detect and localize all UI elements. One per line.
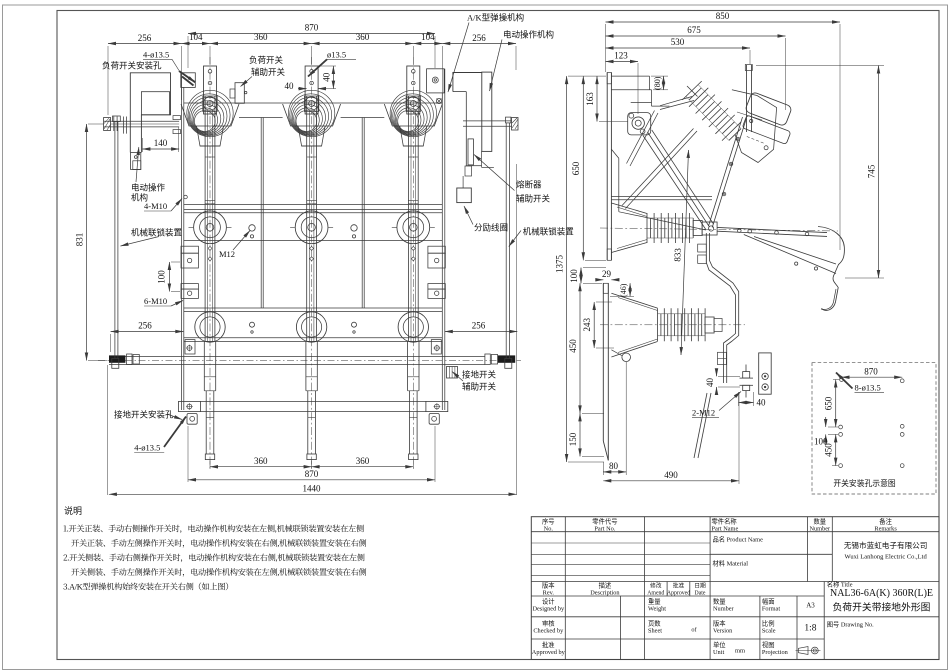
svg-text:360: 360 xyxy=(356,456,370,466)
side frame bottom b xyxy=(611,199,712,201)
dim 40 arrow right xyxy=(318,88,326,90)
P3 flange1 mid xyxy=(403,217,424,238)
leader 2-M12 xyxy=(719,392,741,411)
svg-text:零件名称: 零件名称 xyxy=(712,516,738,525)
side upper bushing fins xyxy=(647,213,693,243)
manual shaft L collar a xyxy=(113,116,115,131)
side lower bushing centerline xyxy=(600,324,745,326)
front bottom rail bottom xyxy=(200,411,426,413)
svg-text:450: 450 xyxy=(568,339,578,353)
side contact bolt dot y376 xyxy=(764,376,766,378)
bracket column R xyxy=(426,246,448,424)
fuse rod adapter xyxy=(465,166,472,176)
P1 lower shaft div xyxy=(204,376,215,378)
manual shaft L bottom xyxy=(104,126,180,128)
front frame top rail xyxy=(184,102,443,104)
P1 flange1 outer xyxy=(194,211,227,244)
P3 shaft inner l xyxy=(410,110,412,341)
svg-text:Version: Version xyxy=(713,628,733,635)
bracket L rowC xyxy=(185,340,195,354)
P1 flange1 tick l xyxy=(189,226,194,228)
dim chain ext x210 xyxy=(209,46,211,64)
mount plate P3 hole inner xyxy=(434,79,436,81)
svg-text:80: 80 xyxy=(609,461,619,471)
leader 电动操作机构 top xyxy=(490,40,503,92)
P2 bearing outer xyxy=(305,97,318,110)
svg-text:负荷开关带接地外形图: 负荷开关带接地外形图 xyxy=(833,601,931,614)
P1 sub skirt xyxy=(197,126,224,146)
AK housing left edge xyxy=(465,92,467,166)
P1 sub skirt base xyxy=(200,145,220,147)
svg-text:无锡市蓝虹电子有限公司: 无锡市蓝虹电子有限公司 xyxy=(844,540,928,550)
foot plate L hole xyxy=(187,404,192,409)
side lower bushing hub xyxy=(714,319,722,332)
svg-text:A3: A3 xyxy=(806,602,815,610)
P3 coil turn 2 xyxy=(393,97,431,135)
dim 40h ext a xyxy=(738,392,740,406)
svg-text:接地开关安装孔: 接地开关安装孔 xyxy=(114,409,174,419)
dim 40 side horiz xyxy=(739,402,754,404)
motor mech bracket xyxy=(131,152,141,169)
svg-text:重量: 重量 xyxy=(648,598,661,606)
interlock bar right a xyxy=(505,123,507,359)
side plate upper L xyxy=(606,73,608,261)
svg-text:日期: 日期 xyxy=(694,583,706,590)
bracket column L xyxy=(179,246,201,424)
P1 shaft inner r xyxy=(211,110,213,341)
P2 coil skirt xyxy=(283,104,341,126)
P3 coil turn 6 xyxy=(398,111,419,132)
label 6-M10 underline xyxy=(144,305,171,307)
svg-text:零件代号: 零件代号 xyxy=(592,516,617,525)
svg-text:Part Name: Part Name xyxy=(712,525,739,532)
tb row description bottom xyxy=(531,595,824,597)
P3 flange1 outer xyxy=(397,211,430,244)
dim 140 ext l xyxy=(141,138,143,152)
tb col 620 xyxy=(620,596,622,660)
dim 831 line xyxy=(86,124,88,361)
P3 lower shaft r xyxy=(418,341,420,390)
dim 123 line xyxy=(606,61,639,63)
side lower pivot xyxy=(622,353,631,362)
dim 650 ext xyxy=(585,259,606,261)
dim 1375 ext top xyxy=(568,75,606,77)
front frame gap line 1-2 xyxy=(239,117,283,119)
bracket L rowC crosshair xyxy=(186,345,193,352)
svg-text:开关安装孔示意图: 开关安装孔示意图 xyxy=(833,478,896,488)
interlock bar left cap xyxy=(113,116,121,122)
side frame left profile xyxy=(618,158,620,212)
svg-text:831: 831 xyxy=(75,233,85,247)
side frame top b xyxy=(611,89,651,91)
AK housing step h xyxy=(453,91,466,93)
leader 4-ø13.5 bottom thick xyxy=(164,417,186,448)
svg-text:Number: Number xyxy=(713,606,735,613)
P3 shaft tick y203.8 xyxy=(408,203,418,205)
leader 4-M10 xyxy=(171,199,182,212)
dim 100 line xyxy=(168,262,170,292)
side switch arm top xyxy=(717,227,827,232)
AK channel bottom ext xyxy=(480,151,482,167)
P3 coil turn 1 xyxy=(391,94,433,136)
P2 coil turn 1 xyxy=(290,94,332,136)
dim holes ext c xyxy=(832,465,838,467)
P3 lower shaft l xyxy=(407,341,409,390)
svg-text:Remarks: Remarks xyxy=(874,525,897,532)
side small bolt line xyxy=(718,358,727,360)
dim 256 botR line xyxy=(445,331,518,333)
foot plate L xyxy=(179,401,201,411)
P2 coil turn 0 xyxy=(288,90,334,136)
dim holes ext a xyxy=(828,426,838,428)
tie bar at x363 left xyxy=(361,118,363,309)
P2 coil turn 3 xyxy=(292,101,325,134)
interlock bar right cap xyxy=(506,117,511,123)
side upper bushing centerline xyxy=(600,228,838,231)
dim side ext 638 xyxy=(637,63,639,114)
tb col weight r xyxy=(759,596,761,660)
dim 1375 line xyxy=(566,76,568,462)
svg-text:批准: 批准 xyxy=(673,582,685,590)
svg-text:100: 100 xyxy=(814,436,828,446)
hole diagram dashed box xyxy=(812,363,936,494)
svg-text:256: 256 xyxy=(472,33,486,43)
P2 coil turn 6 xyxy=(296,111,317,132)
bracket R rowB top xyxy=(428,284,445,290)
leader 分励线圈 xyxy=(464,206,473,225)
mount hole at 840.6,427 xyxy=(839,425,843,429)
dim 40 arrow left xyxy=(298,88,307,90)
dim bot ext x311.6 xyxy=(311,461,313,470)
side bearing outer xyxy=(632,117,644,129)
bracket R rowB hole xyxy=(435,291,439,295)
svg-text:40: 40 xyxy=(285,81,295,91)
ground shaft black end R xyxy=(498,355,516,362)
dim 650 line xyxy=(582,76,584,260)
side top housing inner xyxy=(737,112,762,120)
leader M12 xyxy=(233,231,250,251)
bracket L rowB top xyxy=(181,284,198,290)
load switch aux bracket small xyxy=(230,89,235,98)
svg-text:ø13.5: ø13.5 xyxy=(327,49,346,59)
side contact bolt y387 xyxy=(762,384,768,390)
side contact bolt dot y387 xyxy=(764,386,766,388)
P2 lower shaft div xyxy=(306,376,317,378)
svg-text:描述: 描述 xyxy=(599,581,612,590)
P2 flange2 outer xyxy=(296,312,326,342)
bracket R rowA top xyxy=(428,246,445,253)
ground shaft black end L xyxy=(109,355,125,362)
dim chain ext x516 xyxy=(515,46,517,70)
side switch arm bot xyxy=(717,231,827,236)
manual shaft L wing bot xyxy=(173,130,181,134)
svg-text:修改: 修改 xyxy=(650,582,662,590)
ground shaft collar Lb xyxy=(133,355,139,365)
dim 40 vert ext a xyxy=(318,65,336,67)
side frame top a xyxy=(611,75,649,77)
mount plate right of P3 xyxy=(427,69,445,93)
svg-text:8-ø13.5: 8-ø13.5 xyxy=(855,383,881,393)
P2 flange1 hub xyxy=(308,224,316,232)
P1 flange1 hub xyxy=(206,224,214,232)
svg-text:123: 123 xyxy=(614,51,628,61)
M12 bolt row1 at x354 xyxy=(351,225,357,231)
manual shaft R top xyxy=(463,120,512,122)
side contact bolt y376 xyxy=(762,373,768,379)
dim 850 line xyxy=(606,21,841,23)
bracket L rowA top xyxy=(181,246,198,253)
svg-text:NAL36-6A(K) 360R(L)E: NAL36-6A(K) 360R(L)E xyxy=(830,588,933,599)
dim (80) line xyxy=(663,76,665,90)
motor mech bracket foot xyxy=(133,161,141,170)
P2 coil turn 4 xyxy=(294,104,323,133)
svg-text:品名 Product Name: 品名 Product Name xyxy=(713,535,764,544)
dim side ext 750 xyxy=(749,50,751,64)
P3 centerline xyxy=(412,57,414,468)
dim 29 arrow r xyxy=(611,279,618,281)
side tilted insulator fins xyxy=(682,81,741,141)
P2 top bracket xyxy=(305,66,318,114)
leader 4-ø13.5 tail xyxy=(172,59,179,70)
P1 flange1 mid xyxy=(200,217,221,238)
mount hole at 840.6,434.4 xyxy=(839,433,843,437)
svg-text:(80): (80) xyxy=(653,76,662,90)
svg-text:140: 140 xyxy=(154,138,168,148)
svg-text:360: 360 xyxy=(254,456,268,466)
tb col amend r xyxy=(666,582,668,597)
front frame right edge inner xyxy=(441,93,443,410)
svg-text:电动操作: 电动操作 xyxy=(131,183,166,193)
tb col no xyxy=(564,517,566,660)
side tilted insulator bell a xyxy=(660,97,692,106)
P2 flange1 tick l xyxy=(290,226,295,228)
side M12 bolt upper xyxy=(743,372,750,379)
side upper hub pin xyxy=(709,226,714,231)
svg-text:接地开关: 接地开关 xyxy=(462,370,497,380)
motor mech bracket hole xyxy=(134,156,137,159)
side M12 washer b xyxy=(740,384,754,386)
tb parts row line 2 xyxy=(531,564,710,566)
svg-text:设计: 设计 xyxy=(542,597,555,606)
P3 coil turn 5 xyxy=(397,108,421,132)
P1 bolt diamond a xyxy=(208,246,212,250)
AK housing bottom xyxy=(466,165,482,167)
svg-text:电动操作机构: 电动操作机构 xyxy=(503,30,554,40)
dim 833 line xyxy=(681,150,689,355)
side lower bushing bell in b xyxy=(618,339,658,353)
pole P2 assembly xyxy=(283,57,341,468)
P3 bracket hole a xyxy=(412,70,416,74)
side plate upper R xyxy=(610,73,612,261)
side plate lower slant xyxy=(603,441,608,460)
svg-text:530: 530 xyxy=(671,37,685,47)
P2 rod r xyxy=(314,391,316,454)
P2 bolt diamond b xyxy=(310,257,314,261)
side top housing bolt b xyxy=(750,119,753,122)
side raised arm b xyxy=(751,65,753,132)
foot plate L crosshair xyxy=(186,403,193,410)
svg-text:No.: No. xyxy=(544,525,554,532)
interlock bar left foot xyxy=(112,359,119,369)
dim 360 bot a xyxy=(210,466,312,468)
manual shaft L top xyxy=(104,120,180,122)
svg-text:40: 40 xyxy=(705,378,715,388)
tb projection symbol circle xyxy=(811,647,818,654)
side M12 stem down xyxy=(745,391,747,398)
side top housing bolt a xyxy=(764,146,768,150)
manual shaft L hatch lines xyxy=(104,118,111,130)
side arm bolt dot 1 xyxy=(731,164,732,165)
svg-text:(46): (46) xyxy=(619,283,628,297)
dim 360 bot b xyxy=(312,466,414,468)
dim 870 ext right xyxy=(434,36,436,68)
svg-text:Approved by: Approved by xyxy=(532,649,566,656)
front frame right edge outer xyxy=(444,69,446,410)
svg-text:4-ø13.5: 4-ø13.5 xyxy=(143,49,169,59)
dim 450 line xyxy=(579,283,581,413)
AK housing bottom2 xyxy=(482,167,494,169)
svg-text:比例: 比例 xyxy=(762,619,775,628)
P3 bearing block xyxy=(406,96,420,112)
P2 shaft inner l xyxy=(308,110,310,341)
dim 40 vert line xyxy=(332,66,334,89)
leader 熔断器辅助开关 xyxy=(474,155,515,191)
dim 80b ext a xyxy=(602,462,604,475)
svg-text:审核: 审核 xyxy=(542,619,555,628)
dim chain ext x311.6 xyxy=(311,46,313,64)
side switch arm bolt 0 xyxy=(738,229,742,233)
side brace 3b xyxy=(626,131,698,209)
svg-text:Format: Format xyxy=(762,606,780,613)
svg-text:Weight: Weight xyxy=(648,606,666,613)
P3 flange1 tick r xyxy=(430,226,435,228)
svg-text:单位: 单位 xyxy=(713,640,726,649)
front bottom rail top xyxy=(200,400,426,402)
P2 sub skirt xyxy=(298,126,325,146)
side brace 1b xyxy=(643,136,706,230)
P2 bracket hole b xyxy=(310,81,314,85)
P3 lower shaft end xyxy=(408,390,419,392)
side conductor outer xyxy=(706,233,735,383)
ground shaft bottom xyxy=(109,364,485,366)
svg-text:256: 256 xyxy=(472,321,486,331)
P1 bearing outer xyxy=(203,97,216,110)
svg-text:mm: mm xyxy=(735,648,745,655)
interlock bar right b xyxy=(509,123,511,359)
svg-text:Approved: Approved xyxy=(667,591,690,597)
load switch aux bracket main xyxy=(235,83,244,104)
dim 650 holes line xyxy=(835,380,837,428)
dim (46) ext xyxy=(610,295,634,297)
dim 1440 ext left xyxy=(107,365,109,495)
side bearing plate xyxy=(628,113,651,135)
svg-text:页数: 页数 xyxy=(648,619,661,628)
side blade hook xyxy=(818,227,844,311)
side raised arm a xyxy=(746,65,748,132)
svg-text:Rev.: Rev. xyxy=(543,590,555,597)
ground shaft centerline xyxy=(98,360,521,362)
manual shaft L collar c xyxy=(123,117,125,134)
P1 lower shaft r xyxy=(215,341,217,390)
P1 shaft tick y157 xyxy=(205,156,215,158)
P3 bolt diamond a xyxy=(411,246,415,250)
P1 flange2 mid xyxy=(200,317,220,337)
P3 flange2 outer xyxy=(398,312,428,342)
front lower rail line 2 xyxy=(184,337,443,339)
dim 870 holes line xyxy=(842,376,903,378)
dim 745 ext top xyxy=(756,65,884,67)
dim 40h ext b xyxy=(753,392,755,406)
svg-text:数量: 数量 xyxy=(713,597,726,606)
tb col approved r xyxy=(689,582,691,597)
svg-text:备注: 备注 xyxy=(879,516,892,525)
svg-text:1:8: 1:8 xyxy=(804,624,816,634)
P2 rod l xyxy=(307,391,309,454)
foot block R hole xyxy=(432,416,437,421)
side bearing bolt a xyxy=(629,113,634,118)
front mid rail line 0 xyxy=(184,204,443,206)
svg-text:Designed by: Designed by xyxy=(532,606,565,613)
dim 163 ext xyxy=(599,121,628,123)
dim chain segment 311.6-413.3 xyxy=(312,43,414,45)
side lower bushing bell in t xyxy=(618,298,658,311)
manual shaft R bottom xyxy=(463,125,512,127)
mount plate P3 hole outer xyxy=(432,77,438,83)
svg-text:说明: 说明 xyxy=(64,505,82,516)
side brace 2b xyxy=(630,113,658,166)
svg-text:870: 870 xyxy=(864,366,878,376)
front frame gap line 2-3 xyxy=(341,117,385,119)
label 4-ø13.5 bot underline xyxy=(134,452,164,454)
pole P3 assembly xyxy=(384,57,442,468)
P2 rod div xyxy=(308,416,316,418)
side plate cap top xyxy=(607,73,611,84)
side M12 washer a xyxy=(740,377,754,379)
bracket R rowA hole xyxy=(435,258,439,262)
side upper bushing hub xyxy=(702,222,717,235)
tb row designed bottom xyxy=(531,616,939,618)
side support wedge b xyxy=(754,237,836,265)
fuse trip rod xyxy=(468,139,473,165)
svg-text:Number: Number xyxy=(809,525,831,532)
dim chain segment 210-311.6 xyxy=(210,43,312,45)
leader 接地开关安装孔 xyxy=(168,415,182,420)
foot block L xyxy=(187,414,197,425)
tb projection symbol circle inner xyxy=(813,649,816,652)
AK lower line xyxy=(452,92,454,160)
P1 rod div xyxy=(206,416,214,418)
svg-text:Date: Date xyxy=(695,591,706,597)
svg-text:Description: Description xyxy=(590,590,620,597)
leader 电动操作机构 xyxy=(136,147,139,182)
dim chain ext x413.3 xyxy=(412,46,414,64)
ground aux bracket xyxy=(447,367,458,379)
side frame bottom a xyxy=(611,196,712,198)
P3 rod cap xyxy=(409,454,418,460)
svg-text:6-M10: 6-M10 xyxy=(144,296,167,306)
P1 bolt diamond b xyxy=(208,257,212,261)
dim 745 line xyxy=(878,66,880,279)
dim 490 line xyxy=(603,480,739,482)
svg-text:机械联锁装置: 机械联锁装置 xyxy=(131,228,183,238)
P1 bearing inner xyxy=(207,101,213,107)
P1 coil skirt xyxy=(181,104,239,126)
front frame left edge inner xyxy=(183,87,185,410)
svg-text:幅面: 幅面 xyxy=(762,597,775,606)
P1 bracket hole a xyxy=(208,70,212,74)
svg-text:Wuxi Lanhong Electric Co.,Ltd: Wuxi Lanhong Electric Co.,Ltd xyxy=(844,554,927,561)
P2 shaft tick y157 xyxy=(307,156,317,158)
